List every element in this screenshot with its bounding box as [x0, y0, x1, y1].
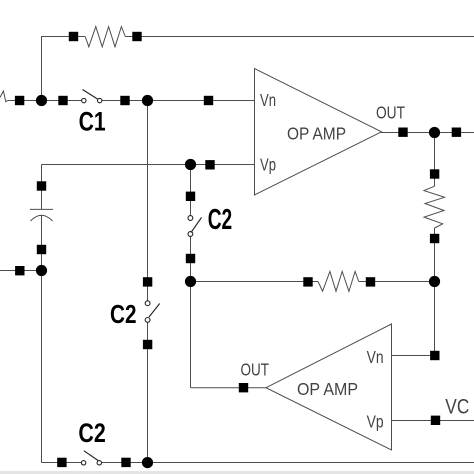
- terminal square top wire x=137: [132, 32, 141, 41]
- wire top feedback right segment: [125, 36, 474, 38]
- wire row B to Vp of U1: [42, 164, 255, 166]
- wire vertical x=434 below resistor R3: [434, 228, 436, 356]
- wire U2 output row: [191, 387, 267, 389]
- wire bottom row right of switch C2: [102, 462, 474, 464]
- resistor R2 (row C horizontal): [318, 271, 359, 291]
- svg-text:OP AMP: OP AMP: [297, 379, 358, 399]
- svg-text:C2: C2: [78, 418, 105, 448]
- junction node row A x=41: [36, 95, 47, 106]
- wire vertical x=434 above resistor R3: [434, 133, 436, 187]
- junction node row B x=190.5: [185, 159, 196, 170]
- junction node bottom row x=147.5: [142, 457, 153, 468]
- switch C2c contacts and lever (bottom row): [81, 451, 101, 465]
- terminal square row A x=19.6: [15, 96, 24, 105]
- terminal square capacitor top lead: [37, 181, 46, 190]
- svg-text:C2: C2: [110, 301, 137, 329]
- terminal square capacitor bottom lead: [37, 245, 46, 254]
- junction node left column y=271: [36, 265, 47, 276]
- terminal square x=147 below switch: [143, 340, 152, 349]
- switch C1 contacts and lever: [82, 90, 102, 103]
- switch C2a contacts and lever (x=190): [188, 216, 202, 237]
- terminal square left stub y=271: [15, 266, 24, 275]
- terminal square U1 output right: [452, 128, 461, 137]
- terminal square row C right of R2: [366, 277, 375, 286]
- terminal square bottom row x=62: [57, 458, 66, 467]
- terminal square U2 output: [239, 383, 248, 392]
- terminal square bottom row x=126: [121, 458, 130, 467]
- wire U2 Vn input: [392, 355, 435, 357]
- wire U2 Vp input / VC: [392, 420, 474, 422]
- wire row C left of resistor R2: [191, 281, 319, 283]
- svg-text:OUT: OUT: [376, 102, 405, 122]
- terminal square x=434 below R3: [430, 234, 439, 243]
- terminal square row B x=210: [205, 160, 214, 169]
- svg-text:C2: C2: [208, 204, 233, 236]
- wire stub left edge row y=271: [0, 270, 42, 272]
- op-amp U1 triangle: [255, 69, 382, 196]
- terminal square row C left of R2: [303, 277, 312, 286]
- wire row C right of resistor R2: [359, 281, 435, 283]
- terminal square U1 output: [398, 128, 407, 137]
- resistor R3 (right vertical): [424, 186, 445, 228]
- terminal square x=190 above switch: [186, 192, 195, 201]
- capacitor Cplate top flat: [30, 208, 53, 210]
- svg-text:OP AMP: OP AMP: [287, 123, 346, 143]
- junction node row C x=434.6: [429, 276, 440, 287]
- resistor R4 partial at left edge: [0, 91, 8, 102]
- junction node row C x=190.5: [185, 276, 196, 287]
- svg-text:OUT: OUT: [241, 359, 270, 379]
- terminal square U2 Vp / VC: [431, 416, 440, 425]
- switch C2b contacts and lever (x=147): [145, 301, 159, 322]
- terminal square row A x=125: [120, 96, 129, 105]
- terminal square top wire x=73.5: [69, 32, 78, 41]
- svg-text:Vp: Vp: [260, 154, 276, 174]
- terminal square row A x=208.5: [204, 96, 213, 105]
- wire input row A right of switch C1: [102, 100, 254, 102]
- wire vertical x=190 lower segment: [190, 236, 192, 387]
- wire input row A left of switch C1: [8, 100, 82, 102]
- svg-text:Vn: Vn: [260, 90, 276, 110]
- wire vertical x=190 upper segment: [190, 165, 192, 216]
- capacitor curved plate: [31, 215, 53, 221]
- junction node U1 output: [429, 127, 440, 138]
- wire left column lower (capacitor to bottom): [41, 215, 43, 462]
- junction node row A x=147.5: [142, 95, 153, 106]
- terminal square x=434 above R3: [430, 169, 439, 178]
- terminal square row A x=63: [58, 96, 67, 105]
- wire U1 output row: [381, 132, 474, 134]
- wire vertical x=147 lower segment: [147, 322, 149, 463]
- wire top feedback left segment: [42, 37, 86, 101]
- svg-text:Vp: Vp: [367, 412, 384, 432]
- wire left column upper (to capacitor): [41, 165, 43, 210]
- bottom edge shading band: [0, 471, 474, 474]
- resistor R1 (top feedback): [85, 27, 125, 47]
- terminal square U2 Vn: [430, 351, 439, 360]
- svg-text:Vn: Vn: [367, 347, 384, 367]
- wire bottom row left of switch C2: [42, 462, 82, 464]
- terminal square x=190 below switch: [186, 254, 195, 263]
- svg-text:C1: C1: [79, 107, 106, 137]
- wire vertical x=147 upper segment: [147, 101, 149, 302]
- terminal square x=147 above switch: [143, 277, 152, 286]
- svg-text:VC: VC: [445, 395, 469, 419]
- op-amp U2 triangle: [266, 324, 392, 450]
